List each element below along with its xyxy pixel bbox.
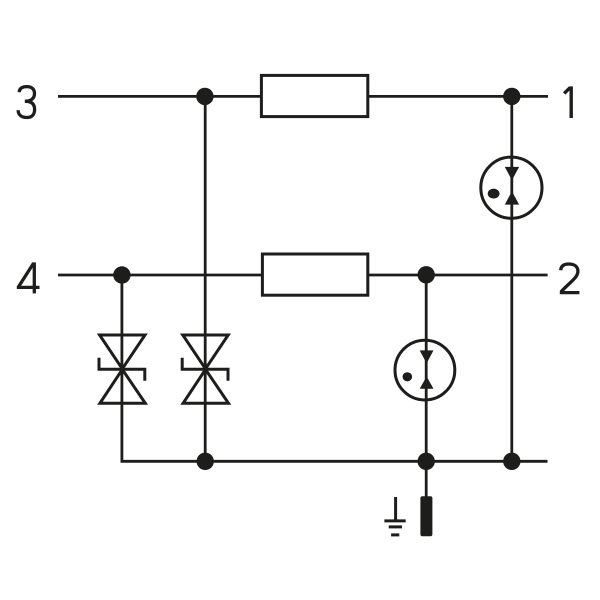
wire from bottom bus down to PE terminal (425, 461, 428, 497)
vertical wire from node on line 1 down to bottom bus (through arrester F1) (510, 96, 513, 461)
terminal label 3 (18, 87, 34, 118)
junction node on bottom bus at x512 (503, 453, 520, 470)
junction node on line 4 at x122 (113, 266, 130, 283)
wire from resistor R2 to node x426 (368, 274, 427, 277)
terminal label 2 (560, 264, 580, 293)
wire from terminal 4 to node at x122 (58, 274, 122, 277)
junction node on line 1 at x512 (503, 88, 520, 105)
wire from node x426 to terminal 2 (426, 274, 547, 277)
vertical wire from line 4 node down through TVS D1 to bottom bus corner (122, 275, 205, 461)
terminal label 4 (17, 262, 40, 293)
bottom ground bus wire (205, 460, 547, 463)
wire from resistor R1 to terminal 1 (369, 95, 548, 98)
PE terminal block (filled bar) (420, 496, 432, 536)
terminal label 1 (564, 86, 571, 118)
wire from terminal 3 to resistor R1 (58, 95, 261, 98)
gas discharge arrester F2 (circle, line 2 branch) (395, 340, 455, 400)
resistor R1 (line 3 to 1) (261, 75, 367, 116)
junction node on bottom bus at x426 (418, 453, 435, 470)
gas discharge arrester F1 (circle, line 1 branch) (481, 157, 542, 218)
suppressor diode D2 (bidirectional TVS, right) (182, 335, 228, 403)
earth ground symbol (384, 497, 405, 535)
junction node on line 3 at x205 (196, 88, 213, 105)
resistor R2 (line 4 to 2) (262, 254, 367, 295)
vertical wire from node on line 3 down to bottom bus (through TVS D2) (204, 96, 207, 461)
wire from node x122 to resistor R2 (122, 274, 262, 277)
junction node on line 2 at x426 (418, 266, 435, 283)
junction node on bottom bus at x205 (197, 453, 214, 470)
suppressor diode D1 (bidirectional TVS, left) (99, 335, 145, 403)
vertical wire from line 2 node down through arrester F2 to bottom bus (425, 275, 428, 461)
